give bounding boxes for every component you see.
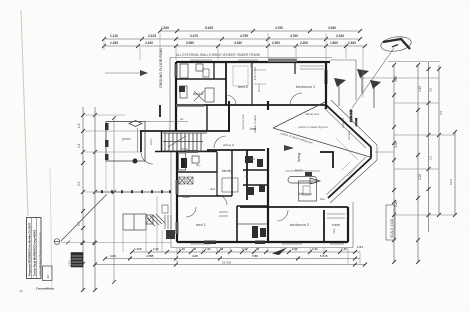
svg-text:3.060: 3.060 — [186, 41, 194, 45]
stair wall x207 — [206, 105, 208, 131]
left unit wall y196 — [177, 195, 232, 197]
ens dark fixture — [179, 86, 185, 92]
party wall upper x229 — [228, 101, 230, 132]
ens fixtures lower — [252, 226, 258, 238]
paper fold lower — [50, 168, 52, 290]
bottom arrow flag — [272, 248, 287, 256]
svg-text:2.340: 2.340 — [336, 34, 344, 38]
svg-text:4.760: 4.760 — [275, 26, 283, 30]
ens divider y224 — [237, 223, 268, 225]
right dim top connector — [388, 61, 440, 63]
svg-text:1.540: 1.540 — [161, 26, 169, 30]
svg-text:linen shelf: linen shelf — [253, 67, 257, 80]
dining nib wall x333 — [332, 152, 334, 168]
door arc bed2 — [226, 95, 236, 105]
svg-text:4.45: 4.45 — [192, 254, 198, 258]
door arc bedroom2 — [277, 210, 288, 221]
svg-text:c w o: c w o — [68, 260, 71, 266]
svg-text:tiles: tiles — [320, 197, 326, 201]
svg-text:sliding door: sliding door — [305, 112, 319, 116]
svg-text:2.315: 2.315 — [148, 34, 156, 38]
window hatch on top wall — [268, 59, 297, 63]
upper right wall — [325, 62, 327, 109]
svg-text:12.34 AHD: 12.34 AHD — [349, 109, 353, 122]
paper fold line — [21, 10, 28, 216]
raked ceiling line upper — [273, 102, 325, 128]
svg-text:Turner Road MARNGROO dwg 463/: Turner Road MARNGROO dwg 463/02 — [33, 229, 37, 276]
window band upper left wall — [175, 64, 178, 77]
right dimension line R5 — [449, 130, 457, 217]
svg-text:ldry: ldry — [196, 163, 201, 167]
svg-text:19.8: 19.8 — [449, 179, 453, 185]
svg-text:hall: hall — [250, 126, 256, 131]
svg-text:bed 3: bed 3 — [193, 91, 204, 96]
dining nib wall y152 — [320, 151, 334, 153]
svg-text:3.940: 3.940 — [328, 26, 336, 30]
right dim R2 labels — [418, 86, 422, 180]
svg-text:1.125: 1.125 — [134, 247, 142, 251]
top dimension line T2 — [102, 37, 362, 41]
fence line — [96, 191, 171, 193]
wc fixtures — [245, 156, 253, 163]
fence diagonal — [61, 194, 107, 241]
porch slab — [123, 214, 146, 230]
wall y79 top-left rooms — [176, 78, 226, 80]
title block — [27, 218, 42, 279]
left dimension line L1 — [81, 107, 85, 292]
lower-left outer wall x177 — [176, 152, 178, 242]
bed wall x232 — [231, 150, 233, 196]
svg-text:wir: wir — [180, 117, 184, 121]
svg-text:living: living — [296, 153, 301, 162]
bottom dimension line B2 — [103, 257, 360, 261]
entry door dot — [133, 159, 138, 164]
porch piers — [105, 123, 109, 130]
kitchen sink — [303, 186, 310, 195]
ens wall y206 — [237, 205, 268, 207]
left wall x141 — [140, 131, 142, 152]
window band left wall a — [176, 180, 179, 194]
stair mid rail — [163, 141, 203, 143]
stair lower wall y151 — [155, 151, 217, 153]
porch outline — [106, 122, 188, 162]
door arc bed1 — [186, 207, 196, 217]
bathroom wall y172 — [177, 171, 217, 173]
svg-text:scale 1:100 drawn PW date 6.: scale 1:100 drawn PW date 6.02 sheet 2 o… — [39, 232, 42, 276]
ens wall x237 — [236, 206, 238, 242]
porch step lines — [165, 215, 171, 229]
stairwell wall x161 — [161, 131, 163, 152]
svg-text:porch: porch — [122, 137, 131, 141]
bay eave upper — [331, 100, 377, 145]
bottom dim B2 labels — [110, 254, 328, 258]
bottom dimension line B1 — [130, 250, 360, 254]
bay apex wall — [370, 147, 372, 158]
svg-text:1.540: 1.540 — [348, 41, 356, 45]
porch ext stub — [156, 196, 158, 252]
svg-text:ConsentWorks: ConsentWorks — [36, 287, 55, 291]
top dimension line T3 — [102, 44, 367, 48]
wall x226 — [225, 62, 227, 105]
svg-text:family: family — [222, 168, 232, 173]
svg-text:2.46: 2.46 — [394, 201, 398, 207]
top dimension text row 2 — [110, 34, 344, 38]
window marks bottom wall — [190, 243, 210, 245]
datum diamond left — [129, 121, 142, 127]
downpipe flags right — [334, 69, 381, 89]
bathroom wall x217 — [216, 152, 218, 172]
right wall lower x348 — [347, 207, 349, 242]
annotation text row above top wall — [176, 53, 260, 57]
bed2 bed outline — [233, 66, 248, 86]
right dimension line R1 — [392, 63, 396, 264]
stub wall x295 — [294, 62, 296, 74]
hall wall y150 — [207, 149, 265, 151]
svg-text:sliding dr: sliding dr — [223, 143, 234, 147]
door swing X ensuite — [194, 91, 204, 101]
bed wall x217 — [216, 172, 218, 196]
svg-text:3.2: 3.2 — [429, 155, 433, 160]
svg-text:21.415: 21.415 — [222, 261, 232, 265]
porch post stub — [105, 161, 107, 191]
porch pier — [146, 215, 153, 224]
top extension stubs — [104, 33, 363, 98]
room labels — [193, 84, 341, 227]
svg-text:bedroom 2: bedroom 2 — [290, 222, 310, 227]
door arc family — [217, 195, 227, 205]
svg-text:entry: entry — [149, 138, 153, 145]
linen wall x252 — [251, 62, 253, 105]
wc pan — [203, 69, 209, 77]
svg-text:20: 20 — [46, 275, 50, 279]
linen shelf lines — [254, 69, 266, 71]
dark band bottom wall a — [204, 241, 216, 245]
bay eave lower — [330, 160, 377, 203]
left extension line L3 — [112, 116, 116, 284]
wall x160 entry — [159, 105, 161, 117]
wall x214 — [213, 62, 215, 79]
svg-text:1.600: 1.600 — [330, 41, 338, 45]
svg-text:kitchen: kitchen — [299, 191, 312, 196]
wall x247 — [246, 150, 248, 200]
svg-text:2.440: 2.440 — [145, 41, 153, 45]
svg-text:bed 2: bed 2 — [238, 84, 249, 89]
svg-text:bench: bench — [295, 168, 303, 172]
porch steps hatch — [147, 214, 165, 226]
bathroom fixtures — [181, 158, 187, 168]
svg-text:meals: meals — [182, 195, 190, 199]
right dim connectors — [360, 77, 439, 79]
svg-text:4.795: 4.795 — [240, 34, 248, 38]
svg-text:bath: bath — [182, 147, 188, 151]
eave lines right of top block — [330, 59, 356, 61]
svg-text:4.25: 4.25 — [418, 174, 422, 180]
door arc bedroom1 — [290, 93, 302, 105]
svg-text:3.30: 3.30 — [394, 142, 398, 148]
stair window band — [186, 150, 198, 153]
bay window inner line lower — [326, 157, 366, 195]
bay diagonal wall lower — [328, 158, 371, 198]
window marks top wall — [190, 59, 212, 61]
ahd text columns — [349, 109, 358, 126]
hws unit — [166, 230, 175, 239]
svg-text:20: 20 — [20, 289, 24, 293]
stair up arrow — [168, 136, 186, 147]
svg-text:1.84: 1.84 — [110, 254, 116, 258]
entry door arc — [141, 152, 153, 164]
eave outline right lower — [352, 202, 354, 248]
datum circle left — [54, 239, 96, 245]
left extension stubs — [61, 115, 171, 243]
kitchen bench island pill — [288, 177, 317, 184]
svg-text:hwd: hwd — [250, 157, 256, 161]
robe lines bed1 — [219, 211, 228, 213]
title block side cell — [43, 266, 53, 281]
svg-text:4.760: 4.760 — [290, 34, 298, 38]
raked ceiling line lower — [273, 128, 370, 157]
svg-text:1.54: 1.54 — [357, 245, 363, 249]
svg-text:. . outline of raked clg over: . . outline of raked clg over . . — [295, 125, 331, 129]
svg-text:tiled: tiled — [210, 187, 216, 191]
kitchen living wall y207 — [240, 206, 348, 208]
bottom wall — [177, 241, 348, 243]
laundry boxes — [179, 177, 193, 184]
robe wall x324 — [323, 210, 325, 242]
svg-text:4.785: 4.785 — [146, 254, 154, 258]
svg-text:window: window — [347, 130, 351, 140]
robe lines bedroom1 — [300, 65, 324, 67]
bath tub — [179, 153, 186, 170]
svg-text:2.300: 2.300 — [272, 41, 280, 45]
staircase — [163, 133, 207, 151]
svg-text:2.300: 2.300 — [300, 41, 308, 45]
annotation micro text clusters — [180, 62, 351, 234]
right dimension line R2 — [416, 63, 420, 264]
left dimension line L2 — [93, 107, 97, 292]
door arc bed3 — [214, 136, 226, 148]
left dim L1 labels — [77, 123, 81, 262]
meals table — [222, 178, 238, 192]
svg-text:robe: robe — [249, 62, 253, 68]
svg-text:4.180: 4.180 — [234, 41, 242, 45]
svg-text:Proposed RESIDENCE for Mr+Mrs: Proposed RESIDENCE for Mr+Mrs D.LIGHT — [28, 222, 32, 276]
svg-text:bed 1: bed 1 — [196, 222, 207, 227]
svg-text:3.0: 3.0 — [429, 87, 433, 92]
svg-text:3.470: 3.470 — [190, 34, 198, 38]
svg-text:wc: wc — [245, 174, 249, 178]
svg-text:1.2: 1.2 — [77, 123, 81, 128]
svg-text:GROUND FLOOR PLAN: GROUND FLOOR PLAN — [159, 48, 163, 88]
fridge dark — [305, 172, 312, 176]
right dim R1 labels — [394, 76, 398, 207]
eave outline left upper — [169, 58, 171, 132]
bottom dimension line B3 — [93, 261, 367, 267]
svg-text:5.715: 5.715 — [320, 254, 328, 258]
top dimension line T1 — [158, 29, 362, 33]
svg-text:SCALE 1:100: SCALE 1:100 — [390, 218, 394, 238]
svg-text:4.49: 4.49 — [418, 86, 422, 92]
eave outline top — [170, 57, 332, 59]
meter box — [162, 205, 168, 213]
svg-text:brick sill: brick sill — [341, 118, 345, 128]
eave outline left lower — [170, 152, 172, 248]
bottom extension stubs — [123, 230, 360, 264]
svg-text:broom: broom — [257, 83, 261, 92]
svg-text:1.185: 1.185 — [110, 41, 118, 45]
ensuite fixtures top-left — [180, 64, 188, 78]
bay window inner line upper — [324, 108, 366, 148]
section flag kitchen — [310, 178, 320, 184]
section flag living — [284, 145, 294, 151]
kitchen upper bench line — [285, 170, 320, 172]
top wall — [176, 61, 330, 63]
kitchen bench rect — [299, 181, 317, 201]
svg-text:2.1: 2.1 — [77, 143, 81, 148]
svg-text:2.9: 2.9 — [77, 181, 81, 186]
top dimension text row 1 — [161, 26, 336, 30]
deck hatch — [336, 138, 358, 176]
eave outline bottom — [171, 247, 353, 249]
party wall x268 — [267, 148, 269, 242]
svg-text:5.445: 5.445 — [205, 26, 213, 30]
upper left wall — [175, 62, 177, 131]
wc block walls — [243, 169, 268, 171]
right dimension line R3 — [427, 62, 433, 232]
top dimension text row 3 — [110, 41, 356, 45]
hatched logo block — [68, 253, 83, 268]
north symbol — [352, 35, 412, 108]
vertical label box right lower — [386, 205, 395, 240]
svg-text:3.05: 3.05 — [394, 76, 398, 82]
svg-text:1.21: 1.21 — [153, 247, 159, 251]
window hatch wall y105 — [176, 104, 204, 107]
right dimension line R4 — [437, 65, 443, 217]
wall y105 full width — [176, 104, 326, 106]
svg-text:roof line over: roof line over — [241, 114, 245, 130]
svg-text:1.110: 1.110 — [110, 34, 118, 38]
dark band bottom wall b — [255, 241, 265, 245]
svg-text:7.86: 7.86 — [252, 254, 258, 258]
window band right wall — [325, 70, 328, 84]
bay diagonal wall upper — [326, 105, 371, 147]
svg-text:robe: robe — [332, 228, 336, 234]
wall y131 — [140, 130, 229, 132]
svg-text:robe: robe — [332, 222, 341, 227]
robe lines bedroom2 — [327, 213, 345, 215]
bottom dim B1 labels — [134, 245, 363, 251]
svg-text:6.5: 6.5 — [439, 110, 443, 115]
datum flag top-left — [140, 70, 148, 76]
bay eave apex — [376, 145, 378, 160]
party wall x268 upper stub — [267, 101, 269, 110]
window band left wall b — [176, 222, 179, 234]
svg-text:bedroom 1: bedroom 1 — [296, 84, 316, 89]
